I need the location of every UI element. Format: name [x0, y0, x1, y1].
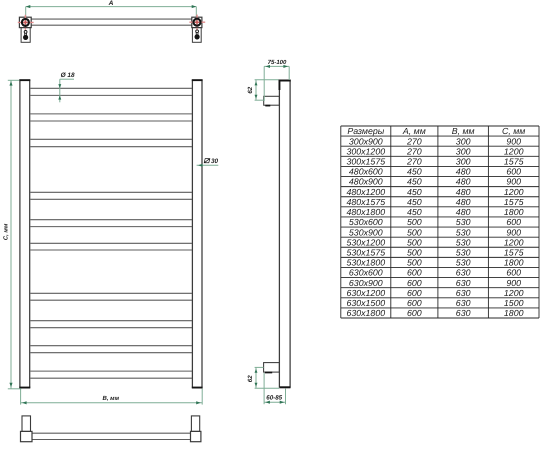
svg-text:630х1500: 630х1500: [346, 298, 385, 308]
top view: dimension A right extension: [195, 7, 197, 23]
front view: diameter 18 leader: [58, 79, 74, 102]
top view: left pipe circle: [22, 19, 29, 26]
svg-text:1800: 1800: [504, 207, 524, 217]
svg-text:1200: 1200: [504, 237, 524, 247]
svg-text:630х900: 630х900: [349, 278, 383, 288]
svg-text:300х900: 300х900: [349, 136, 383, 146]
front view: diameter 18 label: [61, 72, 75, 79]
svg-text:1200: 1200: [504, 146, 524, 156]
dimensions table: row 630х1800: [346, 308, 523, 318]
svg-text:630: 630: [456, 278, 471, 288]
svg-text:530: 530: [456, 258, 471, 268]
side view: top dimension 62 line: [255, 80, 258, 100]
svg-text:C, мм: C, мм: [3, 223, 10, 240]
dimensions table: row 530х1575: [346, 247, 523, 257]
svg-text:500: 500: [407, 258, 422, 268]
svg-text:480х900: 480х900: [349, 177, 383, 187]
svg-text:630: 630: [456, 308, 471, 318]
svg-text:1500: 1500: [504, 298, 524, 308]
top view: left red crosshair: [18, 15, 34, 30]
top view: right pipe circle: [194, 19, 201, 26]
dimensions table: row 480х600: [349, 167, 521, 177]
svg-text:75-100: 75-100: [268, 59, 287, 66]
bottom view: right wall bracket: [191, 416, 199, 432]
svg-text:480: 480: [456, 187, 471, 197]
svg-text:630: 630: [456, 268, 471, 278]
side view: bottom dimension 62 extensions: [255, 367, 280, 388]
side view: post top cap: [279, 80, 291, 91]
svg-text:С, мм: С, мм: [502, 126, 525, 136]
svg-text:480х1575: 480х1575: [346, 197, 385, 207]
svg-text:530х1200: 530х1200: [346, 237, 385, 247]
dimensions table: row 530х1800: [346, 258, 523, 268]
svg-text:500: 500: [407, 227, 422, 237]
front view: left post bottom cap: [19, 387, 30, 389]
front view: rung tube 9: [30, 346, 192, 353]
svg-text:1800: 1800: [504, 258, 524, 268]
top view: right keyhole plate: [192, 28, 201, 43]
svg-text:530х600: 530х600: [349, 217, 383, 227]
svg-text:Размеры: Размеры: [347, 126, 384, 136]
front view: rung tube 8: [30, 321, 192, 328]
svg-text:630х1800: 630х1800: [346, 308, 385, 318]
top view: left keyhole: [23, 31, 28, 41]
side view: top dimension 62 extensions: [255, 80, 279, 101]
dimensions table: row 300х900: [349, 136, 521, 146]
side view: dimension 75-100 extensions: [264, 66, 289, 101]
svg-text:300х1575: 300х1575: [346, 157, 385, 167]
svg-text:530: 530: [456, 217, 471, 227]
svg-text:600: 600: [407, 288, 422, 298]
svg-text:1575: 1575: [504, 247, 524, 257]
dimensions table: row 530х600: [349, 217, 521, 227]
dimensions table: row 630х600: [349, 268, 521, 278]
front view: rung tube 1: [30, 88, 192, 95]
side view: top dimension 62 label: [247, 86, 254, 93]
svg-text:530х1800: 530х1800: [346, 258, 385, 268]
side view: bottom dimension 62 label: [247, 375, 254, 382]
top view: dimension A left extension: [25, 7, 27, 23]
side view: top wall bracket arm: [264, 96, 280, 105]
svg-text:530: 530: [456, 227, 471, 237]
side view: dimension 75-100 line: [264, 65, 289, 68]
dimensions table: row 530х900: [349, 227, 521, 237]
front view: rung tube 6: [30, 243, 192, 250]
bottom view: right end square: [191, 431, 201, 441]
svg-text:300х1200: 300х1200: [346, 146, 385, 156]
top view: right mounting square: [192, 17, 202, 27]
svg-text:600: 600: [407, 278, 422, 288]
dimensions table: row 480х1800: [346, 207, 523, 217]
svg-text:530х1575: 530х1575: [346, 247, 385, 257]
front view: rung tube 3: [30, 139, 192, 146]
svg-text:630х600: 630х600: [349, 268, 383, 278]
svg-text:300: 300: [456, 146, 471, 156]
svg-text:480х1200: 480х1200: [346, 187, 385, 197]
svg-text:530: 530: [456, 247, 471, 257]
side view: dimension 75-100 label: [268, 59, 287, 66]
svg-text:А, мм: А, мм: [402, 126, 426, 136]
side view: dimension 60-85 label: [266, 395, 282, 402]
front view: dimension C label: [3, 223, 10, 240]
svg-text:630х1200: 630х1200: [346, 288, 385, 298]
svg-text:В, мм: В, мм: [452, 126, 475, 136]
svg-text:450: 450: [407, 197, 422, 207]
front view: left post: [20, 80, 30, 388]
svg-text:530: 530: [456, 237, 471, 247]
side view: post: [279, 80, 290, 388]
top view: dimension A line: [26, 5, 197, 8]
front view: right post bottom cap: [192, 387, 203, 389]
front view: rung tube 5: [30, 220, 192, 227]
svg-text:270: 270: [406, 157, 422, 167]
bottom view: bar: [32, 433, 191, 439]
front view: square 30 label: [204, 158, 218, 165]
svg-text:480: 480: [456, 207, 471, 217]
dimensions table: row 480х1200: [346, 187, 523, 197]
svg-text:62: 62: [247, 375, 254, 382]
svg-text:1200: 1200: [504, 288, 524, 298]
side view: dimension 60-85 line: [264, 401, 285, 404]
front view: dimension B line: [21, 401, 203, 404]
side view: post bottom cap: [280, 386, 291, 388]
svg-text:530х900: 530х900: [349, 227, 383, 237]
svg-text:500: 500: [407, 217, 422, 227]
svg-text:60-85: 60-85: [266, 395, 282, 402]
svg-text:600: 600: [506, 268, 521, 278]
top view: dimension A label: [108, 0, 114, 7]
svg-text:630: 630: [456, 288, 471, 298]
svg-text:1200: 1200: [504, 187, 524, 197]
svg-text:62: 62: [247, 86, 254, 93]
svg-text:450: 450: [407, 167, 422, 177]
svg-text:300: 300: [456, 157, 471, 167]
top view: left mounting square: [19, 17, 31, 27]
side view: dimension 60-85 extensions: [264, 373, 285, 404]
svg-text:900: 900: [506, 278, 521, 288]
svg-text:1575: 1575: [504, 157, 524, 167]
svg-text:600: 600: [407, 308, 422, 318]
svg-text:900: 900: [506, 136, 521, 146]
side view: bottom wall bracket arm: [264, 363, 280, 373]
svg-text:600: 600: [407, 268, 422, 278]
svg-text:450: 450: [407, 207, 422, 217]
svg-text:270: 270: [406, 146, 422, 156]
front view: left post top cap: [19, 79, 30, 81]
dimensions table: row 480х900: [349, 177, 521, 187]
svg-text:500: 500: [407, 237, 422, 247]
front view: square 30 leader: [197, 164, 219, 167]
top view: right red crosshair: [189, 15, 205, 30]
svg-text:450: 450: [407, 177, 422, 187]
svg-text:480: 480: [456, 177, 471, 187]
top view: horizontal bar of rail: [31, 19, 192, 25]
front view: right post top cap: [192, 79, 203, 81]
front view: rung tube 7: [30, 293, 192, 300]
svg-text:Ø 18: Ø 18: [61, 72, 75, 79]
svg-text:450: 450: [407, 187, 422, 197]
svg-text:600: 600: [407, 298, 422, 308]
side view: bottom dimension 62 line: [255, 367, 258, 388]
svg-text:270: 270: [406, 136, 422, 146]
front view: right post: [192, 80, 202, 388]
dimensions table: row 300х1200: [346, 146, 523, 156]
front view: dimension B label: [103, 395, 120, 402]
svg-text:600: 600: [506, 217, 521, 227]
dimensions table: grid: [341, 126, 539, 318]
dimensions table: header row: [347, 126, 525, 136]
front view: rung tube 10: [30, 371, 192, 378]
svg-text:500: 500: [407, 247, 422, 257]
svg-text:B, мм: B, мм: [103, 395, 120, 402]
front view: rung tube 4: [30, 192, 192, 199]
front view: rung tube 2: [30, 114, 192, 121]
svg-text:480: 480: [456, 197, 471, 207]
top view: right keyhole: [195, 30, 200, 40]
svg-text:480х1800: 480х1800: [346, 207, 385, 217]
svg-text:600: 600: [506, 167, 521, 177]
dimensions table: row 530х1200: [346, 237, 523, 247]
front view: dimension B extensions: [21, 389, 203, 405]
svg-text:1575: 1575: [504, 197, 524, 207]
svg-text:900: 900: [506, 177, 521, 187]
dimensions table: row 630х900: [349, 278, 521, 288]
svg-text:A: A: [108, 0, 114, 7]
bottom view: left wall bracket: [22, 416, 31, 432]
svg-text:480: 480: [456, 167, 471, 177]
svg-text:630: 630: [456, 298, 471, 308]
top view: left keyhole plate: [21, 28, 30, 43]
dimensions table: row 300х1575: [346, 157, 523, 167]
dimensions table: row 630х1200: [346, 288, 523, 298]
svg-text:30: 30: [211, 158, 219, 165]
svg-text:1800: 1800: [504, 308, 524, 318]
dimensions table: row 630х1500: [346, 298, 523, 308]
svg-text:900: 900: [506, 227, 521, 237]
bottom view: left end square: [21, 431, 33, 441]
front view: dimension C line: [9, 80, 12, 389]
svg-text:480х600: 480х600: [349, 167, 383, 177]
svg-text:300: 300: [456, 136, 471, 146]
front view: dimension C extensions: [8, 80, 21, 389]
dimensions table: row 480х1575: [346, 197, 523, 207]
